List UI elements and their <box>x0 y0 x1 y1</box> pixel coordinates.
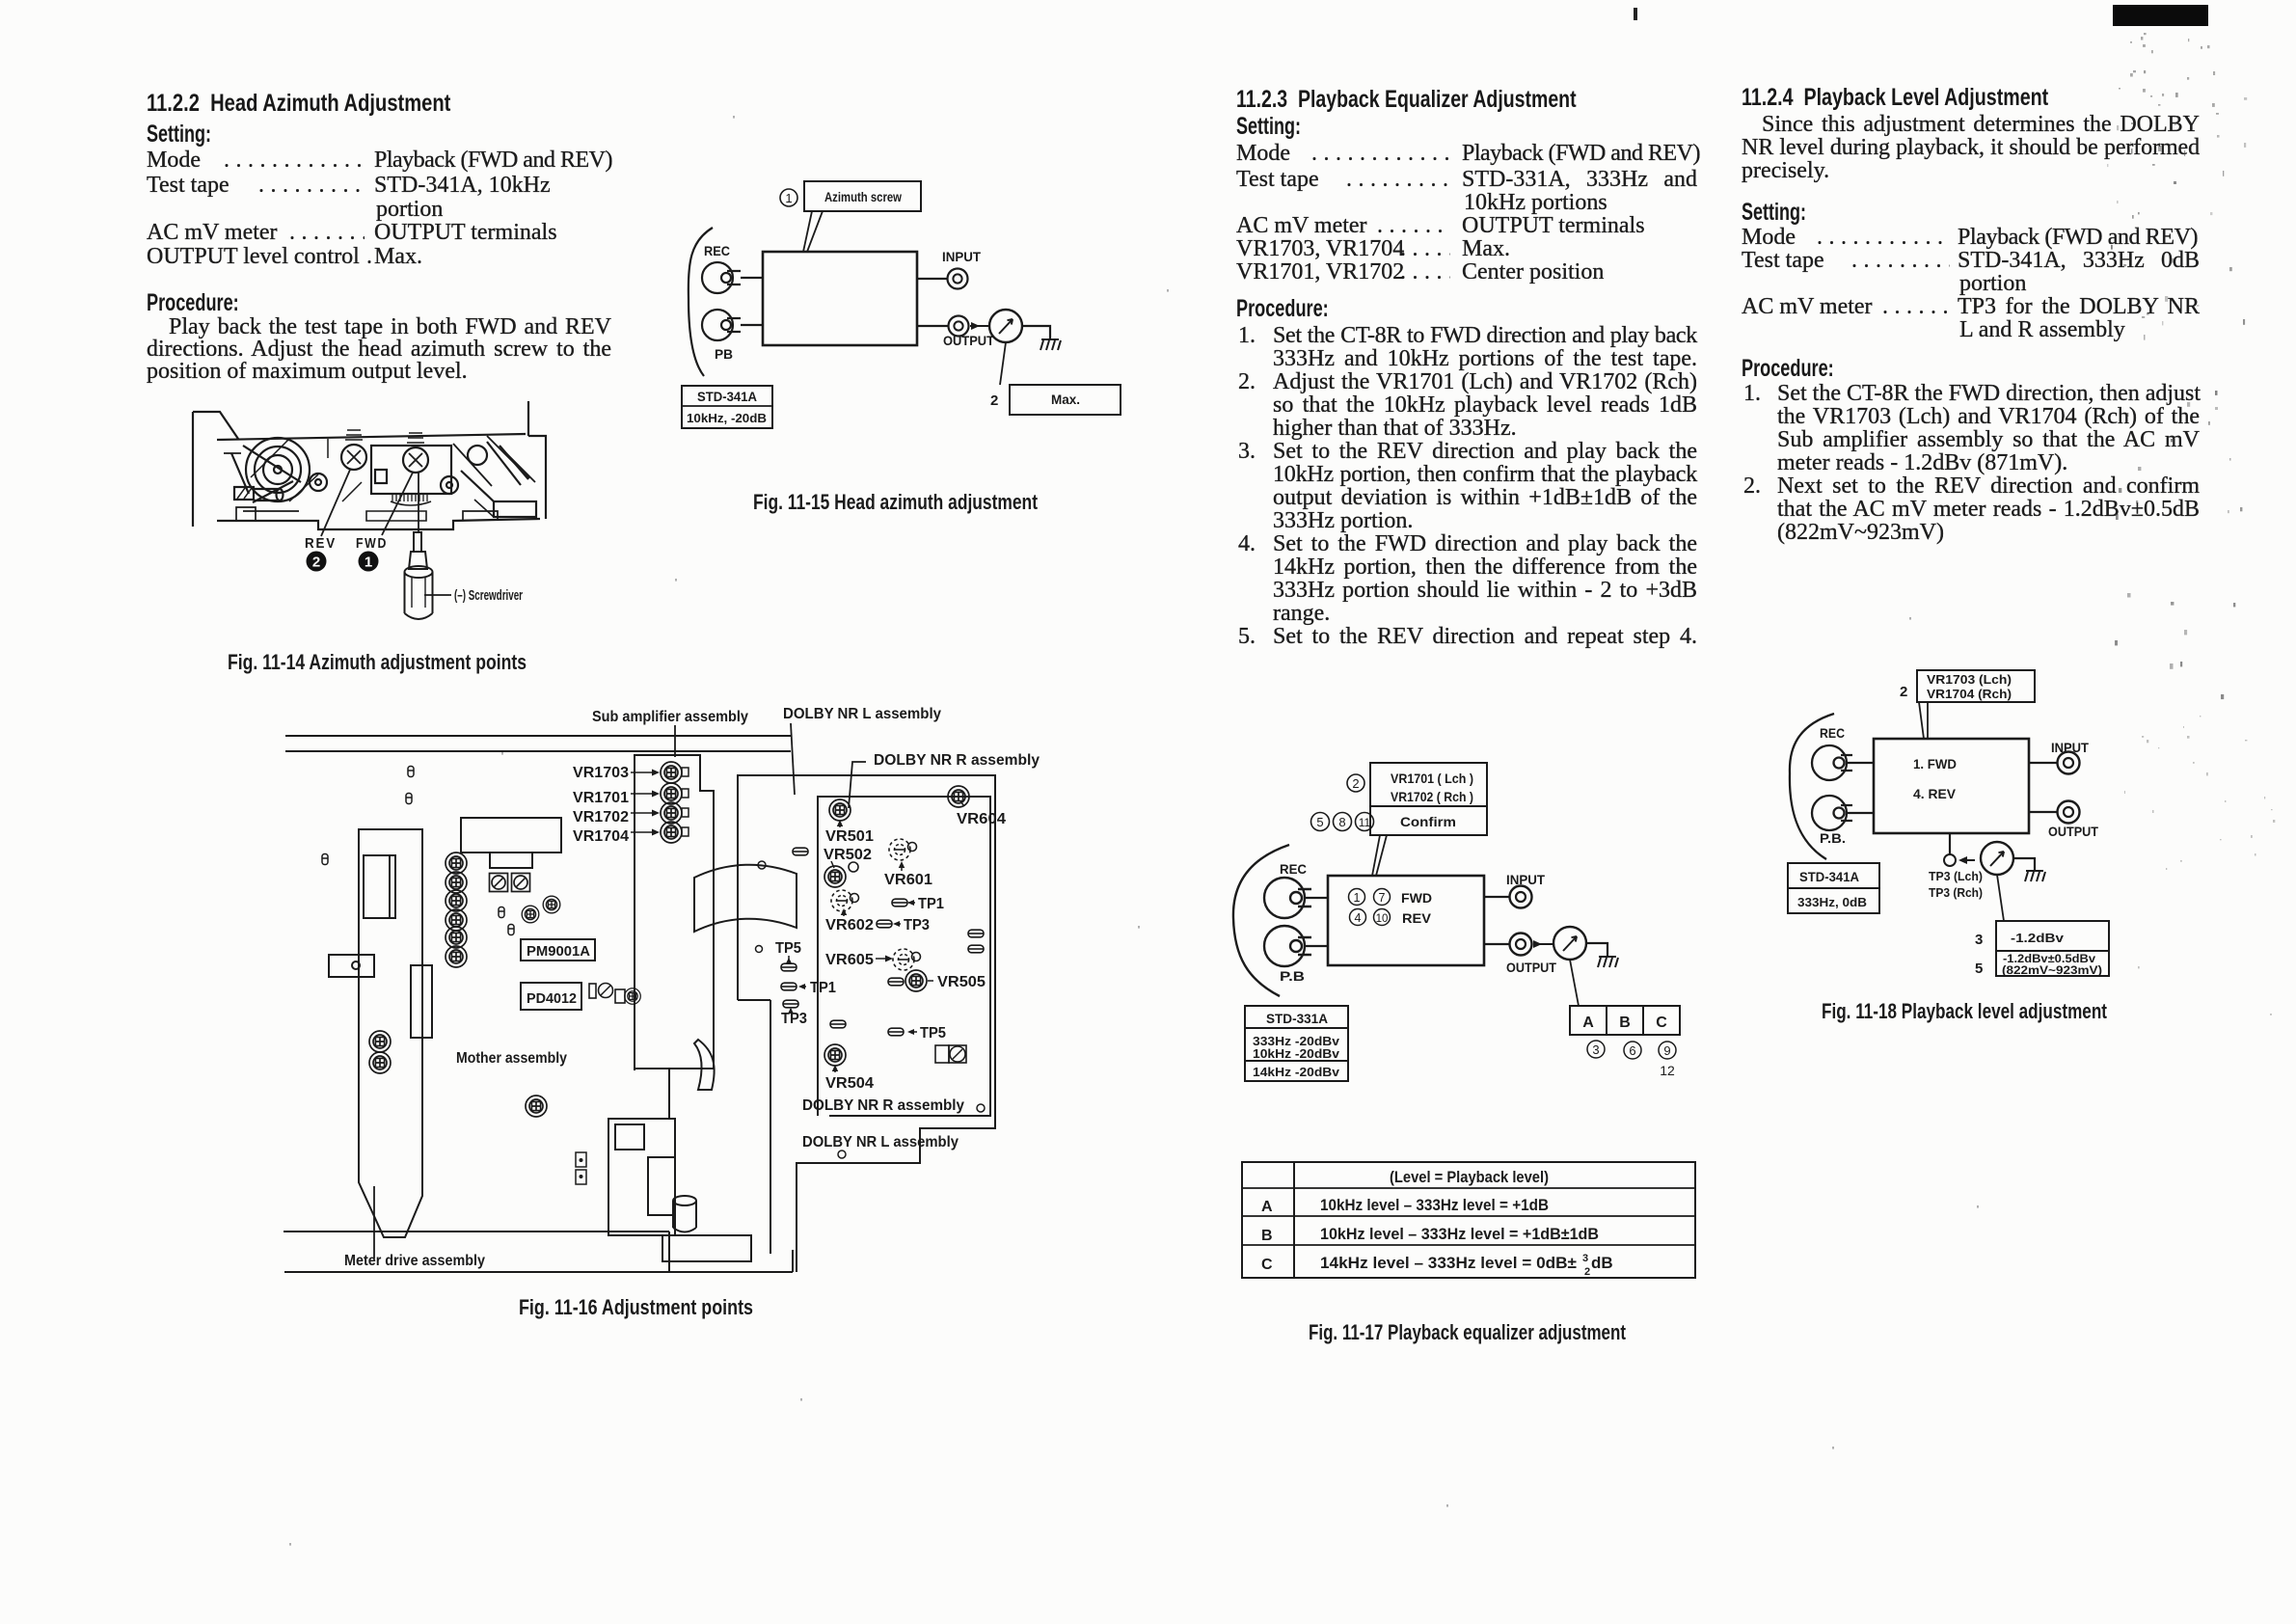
TP1 cap left <box>781 983 797 990</box>
ground <box>2025 871 2045 881</box>
svg-text:PD4012: PD4012 <box>527 990 577 1007</box>
leader wedge to main box <box>1372 835 1387 876</box>
azimuth screw label box <box>804 181 921 211</box>
svg-text:FWD: FWD <box>1401 890 1432 906</box>
TP3 cap left <box>783 1000 798 1008</box>
svg-text:INPUT: INPUT <box>942 249 981 264</box>
svg-text:(Level = Playback level): (Level = Playback level) <box>1390 1168 1549 1186</box>
svg-text:2: 2 <box>1352 776 1359 791</box>
caps on R board right edge <box>968 930 984 937</box>
mechanism top edge <box>217 434 526 440</box>
svg-text:DOLBY NR L assembly: DOLBY NR L assembly <box>802 1134 959 1150</box>
mother pot lower <box>526 1096 547 1117</box>
VR605 dashed pot <box>893 949 921 970</box>
svg-text:Sub amplifier assembly: Sub amplifier assembly <box>592 709 748 725</box>
small connector parts <box>576 1152 586 1167</box>
wire to INPUT jack <box>1484 896 1510 898</box>
meter <box>989 310 1022 342</box>
svg-text:VR605: VR605 <box>825 952 874 968</box>
svg-text:Max.: Max. <box>1051 392 1080 407</box>
VR604 pot <box>948 786 969 807</box>
REC head <box>1264 878 1311 918</box>
svg-text:333Hz, 0dB: 333Hz, 0dB <box>1797 895 1867 909</box>
brace <box>1790 714 1834 859</box>
svg-text:Fig. 11-17 Playback equalizer: Fig. 11-17 Playback equalizer adjustment <box>1309 1320 1627 1344</box>
svg-text:OUTPUT: OUTPUT <box>943 333 994 348</box>
head mount plate <box>371 446 451 494</box>
circled 4 10 REV <box>1350 909 1366 926</box>
chassis top lines <box>285 736 791 751</box>
svg-text:10kHz -20dBv: 10kHz -20dBv <box>1253 1046 1340 1061</box>
svg-text:VR1703: VR1703 <box>573 765 629 781</box>
TP3 node <box>1944 854 1956 866</box>
svg-text:4: 4 <box>1355 911 1362 925</box>
svg-text:TP1: TP1 <box>918 896 944 912</box>
svg-text:Fig. 11-15 Head azimuth adjus: Fig. 11-15 Head azimuth adjustment <box>753 490 1039 514</box>
chassis top right corner <box>528 401 546 519</box>
screwdriver <box>405 532 433 619</box>
mid cap <box>830 1020 846 1028</box>
svg-text:(–) Screwdriver: (–) Screwdriver <box>454 587 523 604</box>
ground <box>1040 339 1061 350</box>
wire to OUTPUT jack <box>1484 943 1510 945</box>
black registration bar top right <box>2113 5 2208 26</box>
VR505 pot <box>905 970 927 991</box>
wire block bottom to TP3 <box>1949 833 1951 854</box>
svg-text:11: 11 <box>1359 816 1371 829</box>
right guide circle <box>441 476 458 494</box>
TP3 cap right <box>877 920 892 928</box>
svg-text:6: 6 <box>1629 1043 1635 1058</box>
svg-text:-1.2dBv: -1.2dBv <box>2011 931 2065 945</box>
svg-text:P.B.: P.B. <box>1820 830 1846 846</box>
ABC boxes <box>1570 1006 1680 1035</box>
FWD azimuth screw <box>403 447 428 473</box>
small mark top center <box>1634 8 1637 20</box>
TP5 cap left <box>781 963 797 971</box>
R board corner component <box>935 1045 949 1063</box>
svg-text:TP3 (Rch): TP3 (Rch) <box>1929 885 1983 900</box>
leader to REV label <box>321 470 350 536</box>
VR601 dashed pot <box>889 839 917 860</box>
svg-text:REV: REV <box>1402 910 1432 926</box>
P.B. head <box>1812 796 1852 830</box>
svg-text:10kHz level – 333Hz level = +1: 10kHz level – 333Hz level = +1dB <box>1320 1196 1549 1214</box>
INPUT jack <box>2058 752 2080 774</box>
DOLBY NR L board outline <box>738 775 995 1272</box>
badge 1 <box>359 552 379 572</box>
leader meter to level boxes <box>1997 875 2004 921</box>
svg-text:TP3: TP3 <box>781 1011 807 1027</box>
svg-text:VR501: VR501 <box>825 828 874 845</box>
svg-text:B: B <box>1261 1228 1273 1244</box>
circled 1 <box>780 189 797 206</box>
VR605 arrow <box>876 958 889 960</box>
cylinder <box>673 1201 696 1232</box>
svg-text:14kHz -20dBv: 14kHz -20dBv <box>1253 1065 1340 1079</box>
svg-text:5: 5 <box>1975 961 1983 977</box>
small ribbon <box>694 1040 715 1090</box>
svg-text:2: 2 <box>1584 1266 1590 1278</box>
mother pots column of six <box>446 853 467 874</box>
wire to INPUT jack <box>917 278 947 280</box>
svg-text:2: 2 <box>1900 684 1907 700</box>
dolby L label leader <box>791 723 795 795</box>
test tape box STD-341A <box>1788 863 1879 913</box>
main block <box>1874 739 2029 833</box>
arrow to TP3 <box>1958 856 1967 864</box>
wire REC to block <box>1305 897 1328 899</box>
svg-text:14kHz level – 333Hz level = 0d: 14kHz level – 333Hz level = 0dB± <box>1320 1254 1577 1272</box>
meter board window <box>364 855 395 918</box>
INPUT jack <box>1510 886 1532 908</box>
svg-text:INPUT: INPUT <box>1506 872 1545 887</box>
cylinder pin <box>254 489 279 501</box>
svg-text:2: 2 <box>990 392 998 409</box>
left lever arms <box>231 446 301 502</box>
svg-text:3: 3 <box>1975 932 1983 948</box>
pot with tab <box>615 989 625 1003</box>
extra mechanism details <box>224 436 535 511</box>
svg-text:VR1704: VR1704 <box>573 828 629 845</box>
svg-text:STD-341A: STD-341A <box>1799 869 1859 884</box>
wire meter to ground <box>1586 943 1607 957</box>
svg-text:Fig. 11-18 Playback level adj: Fig. 11-18 Playback level adjustment <box>1822 999 2108 1023</box>
svg-text:VR602: VR602 <box>825 917 874 934</box>
badge 2 <box>307 552 327 572</box>
chassis bottom lines <box>284 1232 793 1272</box>
svg-text:VR1702: VR1702 <box>573 809 629 826</box>
svg-text:VR601: VR601 <box>884 872 932 888</box>
svg-text:A: A <box>1261 1199 1273 1215</box>
svg-text:dB: dB <box>1591 1254 1613 1272</box>
wire PB to block <box>1305 945 1328 947</box>
svg-text:C: C <box>1261 1257 1273 1273</box>
mechanism bottom edge <box>217 519 540 529</box>
circled 5 8 11 <box>1311 813 1330 831</box>
meter board tab <box>329 955 374 977</box>
sub amp VR pots column <box>661 762 682 783</box>
PD4012 box <box>521 983 581 1010</box>
VR1703/VR1704 label box <box>1917 670 2035 702</box>
wire PB to block <box>1847 812 1874 814</box>
meter board slot <box>411 965 432 1038</box>
PM9001A box <box>521 939 595 961</box>
svg-text:TP5: TP5 <box>775 940 801 957</box>
wire to OUTPUT jack <box>917 325 948 327</box>
dolby R label leader <box>849 762 866 808</box>
main block <box>763 252 917 345</box>
svg-text:VR1701 ( Lch ): VR1701 ( Lch ) <box>1391 771 1473 786</box>
slash screws <box>490 874 508 892</box>
tiny parts <box>499 907 504 918</box>
svg-text:1. FWD: 1. FWD <box>1913 756 1957 771</box>
svg-text:Meter drive assembly: Meter drive assembly <box>344 1253 485 1269</box>
svg-text:VR504: VR504 <box>825 1075 874 1092</box>
PB head <box>702 310 741 340</box>
leader wedge from label to block <box>803 211 823 252</box>
svg-text:3: 3 <box>1592 1042 1599 1057</box>
REC head <box>1812 745 1852 780</box>
svg-text:(822mV~923mV): (822mV~923mV) <box>2002 963 2102 977</box>
wire meter to ground <box>1022 326 1050 339</box>
svg-text:10: 10 <box>1376 913 1389 925</box>
circled 2 <box>1347 774 1364 792</box>
Confirm box <box>1370 806 1487 835</box>
svg-text:VR1703 (Lch): VR1703 (Lch) <box>1927 672 2012 687</box>
small circles on L board <box>758 861 766 869</box>
svg-text:VR502: VR502 <box>824 847 872 863</box>
svg-text:TP3 (Lch): TP3 (Lch) <box>1929 869 1983 883</box>
meter <box>1553 927 1586 960</box>
OUTPUT jack <box>2058 801 2080 824</box>
svg-text:REC: REC <box>704 243 730 258</box>
INPUT jack <box>948 269 968 289</box>
leader screw to screwdriver <box>418 473 419 532</box>
VR502 pot <box>824 866 846 887</box>
component right of PD4012 <box>589 984 596 998</box>
svg-text:REC: REC <box>1820 725 1845 741</box>
toothed sector <box>391 493 431 495</box>
svg-text:VR1701: VR1701 <box>573 790 629 806</box>
leader meter to Max box <box>1000 342 1006 385</box>
svg-text:Confirm: Confirm <box>1400 814 1456 829</box>
svg-text:Azimuth screw: Azimuth screw <box>824 189 902 204</box>
svg-text:Fig. 11-14 Azimuth adjustment: Fig. 11-14 Azimuth adjustment points <box>228 650 527 674</box>
label (-) Screwdriver with leader <box>424 594 451 596</box>
wire REC to block <box>1847 762 1874 764</box>
REV azimuth screw <box>341 445 366 470</box>
svg-text:A: A <box>1582 1015 1594 1031</box>
svg-text:REV: REV <box>305 535 337 552</box>
svg-text:DOLBY NR L assembly: DOLBY NR L assembly <box>783 706 941 722</box>
small window <box>375 470 387 483</box>
svg-text:PM9001A: PM9001A <box>527 943 590 960</box>
svg-text:REC: REC <box>1280 861 1307 877</box>
svg-text:3: 3 <box>1582 1253 1588 1264</box>
svg-text:4. REV: 4. REV <box>1913 786 1957 801</box>
svg-text:TP3: TP3 <box>904 917 930 934</box>
svg-text:OUTPUT: OUTPUT <box>1506 960 1556 975</box>
svg-text:2: 2 <box>312 555 320 571</box>
bottom right assembly <box>608 1119 675 1235</box>
svg-text:TP1: TP1 <box>810 980 836 996</box>
svg-text:5: 5 <box>1316 815 1323 829</box>
svg-text:P.B: P.B <box>1280 968 1305 984</box>
cap left of R board <box>793 848 808 855</box>
svg-text:STD-341A: STD-341A <box>697 389 757 404</box>
svg-text:TP5: TP5 <box>920 1025 946 1042</box>
chassis left edge <box>193 412 238 527</box>
arrow into jack <box>971 322 980 330</box>
DOLBY NR R board outline <box>818 797 990 1116</box>
level boxes <box>1996 921 2109 976</box>
VR504 pot <box>824 1044 846 1066</box>
svg-text:Fig. 11-16 Adjustment points: Fig. 11-16 Adjustment points <box>519 1295 753 1319</box>
left flywheel <box>246 438 310 501</box>
wire meter to ground <box>2013 858 2035 871</box>
svg-text:STD-331A: STD-331A <box>1266 1011 1328 1026</box>
svg-text:10kHz, -20dB: 10kHz, -20dB <box>687 411 767 425</box>
wire REC to block <box>741 277 763 279</box>
Max box <box>1010 385 1121 415</box>
VR602 dashed pot <box>831 890 859 911</box>
mother board top rect <box>461 818 561 853</box>
REC head <box>702 262 741 293</box>
leader wedge <box>1919 702 1928 739</box>
main block <box>1328 876 1484 965</box>
svg-text:DOLBY NR R assembly: DOLBY NR R assembly <box>802 1097 964 1114</box>
meter <box>1981 842 2013 875</box>
test tape box STD-331A <box>1245 1006 1348 1081</box>
meter drive board outline <box>359 829 422 1237</box>
circled 1 7 FWD <box>1349 889 1365 906</box>
level table <box>1242 1162 1695 1278</box>
brace <box>1233 845 1289 996</box>
svg-text:9: 9 <box>1663 1043 1670 1058</box>
wire to OUTPUT jack <box>2029 811 2058 813</box>
svg-text:1: 1 <box>365 555 372 571</box>
OUTPUT jack <box>1510 934 1532 956</box>
svg-text:PB: PB <box>715 346 733 362</box>
svg-text:B: B <box>1619 1015 1631 1031</box>
VR501 pot <box>829 799 851 821</box>
svg-text:C: C <box>1656 1015 1667 1031</box>
leader meter to ABC <box>1570 960 1579 1006</box>
svg-text:FWD: FWD <box>356 535 388 552</box>
VR505 cap <box>888 978 904 986</box>
two small pots <box>522 906 539 923</box>
svg-text:1: 1 <box>1354 891 1361 905</box>
svg-text:DOLBY NR R assembly: DOLBY NR R assembly <box>874 752 1040 769</box>
svg-text:VR1702 ( Rch ): VR1702 ( Rch ) <box>1391 789 1473 804</box>
VR1701/VR1702 label box <box>1370 763 1487 806</box>
svg-text:Mother assembly: Mother assembly <box>456 1050 567 1067</box>
svg-text:1: 1 <box>785 191 792 205</box>
TP5 cap right <box>888 1028 904 1036</box>
svg-text:10kHz level – 333Hz level = +1: 10kHz level – 333Hz level = +1dB±1dB <box>1320 1225 1599 1243</box>
svg-text:VR604: VR604 <box>957 811 1006 827</box>
svg-text:8: 8 <box>1338 815 1345 829</box>
flat cable band <box>694 865 797 932</box>
meter drive leader <box>373 1186 375 1259</box>
hatched adjuster <box>234 487 254 500</box>
sub amp label leader <box>674 725 676 757</box>
ground <box>1598 957 1618 967</box>
sub amplifier board outline <box>635 755 714 1119</box>
svg-text:VR505: VR505 <box>937 974 986 990</box>
wire to INPUT jack <box>2029 762 2058 764</box>
head group brace <box>689 228 713 376</box>
wire PB to block <box>741 324 763 326</box>
OUTPUT jack <box>949 316 969 337</box>
PB head <box>1264 926 1311 966</box>
svg-text:12: 12 <box>1660 1063 1675 1078</box>
meter drive pots pair <box>369 1031 391 1052</box>
svg-text:OUTPUT: OUTPUT <box>2048 824 2098 839</box>
leader to FWD label <box>382 473 413 535</box>
circled 3 6 9 and 12 <box>1587 1041 1605 1058</box>
svg-text:7: 7 <box>1379 891 1386 905</box>
pinch roller small <box>310 474 327 491</box>
arrow into jack <box>1533 940 1542 948</box>
right lever assembly <box>468 446 487 465</box>
test tape box STD-341A <box>682 386 772 428</box>
svg-text:VR1704 (Rch): VR1704 (Rch) <box>1927 687 2012 701</box>
TP1 cap right <box>892 899 907 907</box>
